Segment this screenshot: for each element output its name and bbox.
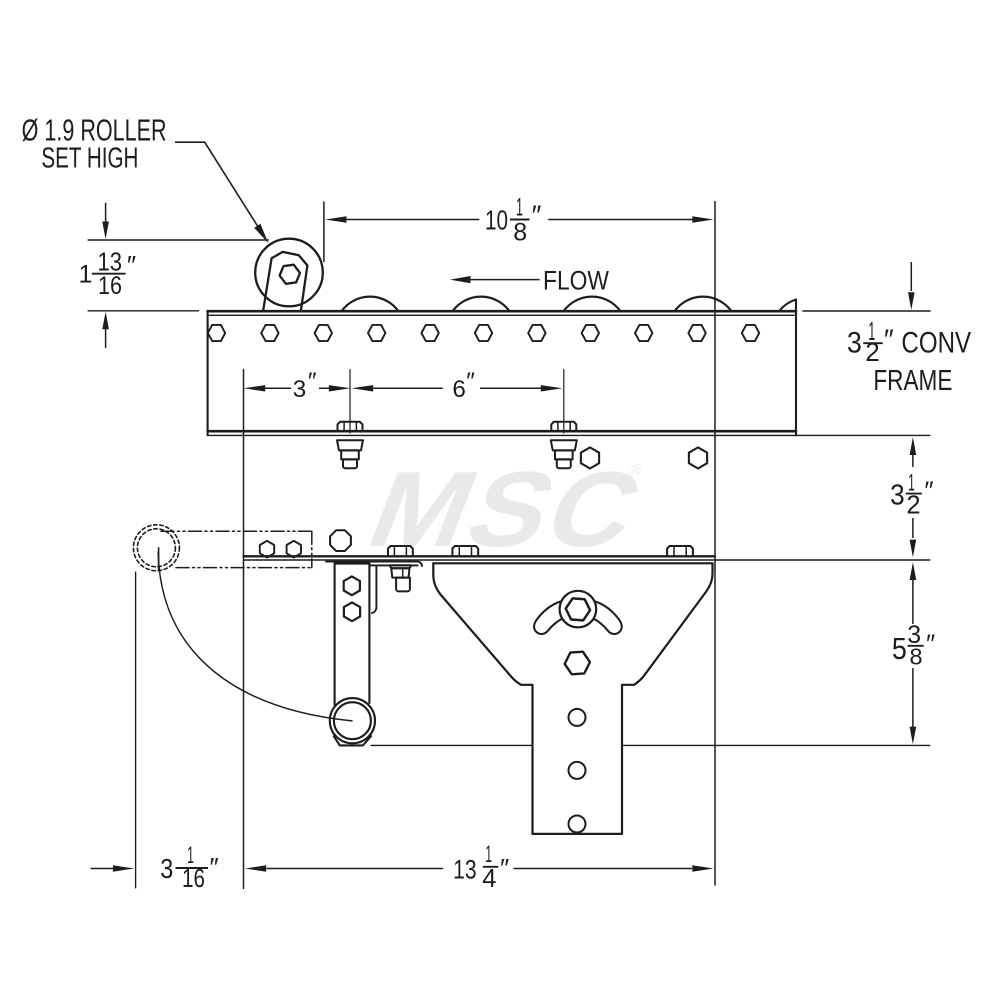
plate bolts heads (x=465.3, x=680) — [452, 546, 693, 556]
carriage bolt at 3in (x=350) — [337, 370, 363, 469]
bottom extension lines — [135, 572, 137, 889]
clamp tube chamfer — [334, 736, 371, 745]
set-high roller hex bore — [280, 265, 300, 284]
leader curve from tube to clamp circle — [158, 552, 352, 721]
bracket strap holes — [569, 709, 586, 726]
svg-text:″: ″ — [308, 368, 317, 395]
svg-text:″: ″ — [466, 368, 475, 395]
extension line at clamp bottom — [371, 744, 930, 746]
svg-text:FRAME: FRAME — [873, 365, 952, 397]
clamp tube end circles — [330, 698, 375, 743]
leader to roller — [175, 142, 259, 227]
svg-text:3: 3 — [890, 480, 905, 512]
svg-text:8: 8 — [909, 644, 922, 670]
svg-text:″: ″ — [127, 250, 136, 280]
tube hexagon holes — [260, 541, 274, 558]
svg-text:16: 16 — [182, 865, 205, 893]
clamp strap — [335, 564, 370, 705]
svg-text:2: 2 — [906, 492, 920, 520]
svg-text:5: 5 — [892, 632, 907, 666]
dim 5-3/8 right — [910, 562, 917, 744]
FLOW arrow — [454, 279, 540, 281]
svg-text:CONV: CONV — [901, 327, 971, 360]
svg-text:″: ″ — [210, 852, 219, 882]
svg-text:3: 3 — [293, 376, 307, 403]
plate hexagon holes — [581, 447, 599, 468]
carriage bolt at 6in (x=563.8) — [551, 370, 577, 469]
frame hexagon holes row — [208, 325, 759, 341]
set-high roller — [255, 239, 323, 307]
svg-text:13: 13 — [453, 854, 477, 884]
dim 13-1/4 — [245, 865, 714, 871]
svg-text:3: 3 — [160, 853, 173, 884]
strap hex holes — [344, 576, 360, 595]
hex bolt head below wing nut — [565, 652, 590, 675]
hitch pin octagon head — [330, 530, 351, 551]
bracket top edge — [433, 562, 712, 564]
svg-text:1: 1 — [79, 261, 93, 289]
svg-text:FLOW: FLOW — [543, 265, 609, 295]
svg-text:″: ″ — [884, 324, 894, 355]
dim 3in / 6in — [244, 385, 563, 391]
svg-text:″: ″ — [924, 476, 933, 506]
hitch tube end (dashed circles) — [133, 525, 179, 571]
svg-text:SET HIGH: SET HIGH — [41, 143, 138, 175]
svg-text:MSC: MSC — [353, 450, 661, 569]
svg-text:16: 16 — [98, 272, 122, 300]
svg-text:8: 8 — [513, 218, 527, 246]
hidden hitch tube (dash-dot) — [161, 531, 312, 567]
svg-text:6: 6 — [452, 376, 466, 403]
hitch tube center mark — [158, 548, 160, 570]
middle plate — [244, 202, 930, 889]
watermark MSC — [353, 450, 661, 569]
angle clip under plate — [326, 562, 422, 613]
dim 3-1/2 right — [910, 437, 917, 557]
svg-text:4: 4 — [482, 865, 496, 893]
roller humps on conveyor — [342, 297, 399, 312]
svg-text:1: 1 — [485, 841, 492, 868]
dim 3-1/2 conv frame — [802, 262, 930, 311]
strap slot shadow — [337, 561, 364, 564]
svg-text:″: ″ — [532, 200, 542, 231]
dim 3-1/16 — [91, 865, 135, 871]
svg-text:1: 1 — [516, 193, 523, 221]
clip bolt (x=400.4) — [388, 546, 413, 591]
mounting bracket — [433, 563, 712, 834]
svg-text:″: ″ — [500, 853, 509, 883]
frame bottom thin line + right extension — [208, 434, 930, 436]
frame right end cut arc — [779, 300, 796, 312]
wing nut — [534, 591, 622, 634]
svg-text:2: 2 — [865, 337, 879, 367]
conveyor frame band — [208, 300, 796, 436]
dim 10-1/8 — [324, 202, 714, 263]
dim 1-13/16 arrows — [88, 203, 269, 348]
set-high roller bracket — [263, 252, 307, 311]
svg-text:10: 10 — [485, 205, 508, 236]
svg-text:″: ″ — [926, 629, 935, 659]
svg-text:3: 3 — [847, 327, 862, 360]
